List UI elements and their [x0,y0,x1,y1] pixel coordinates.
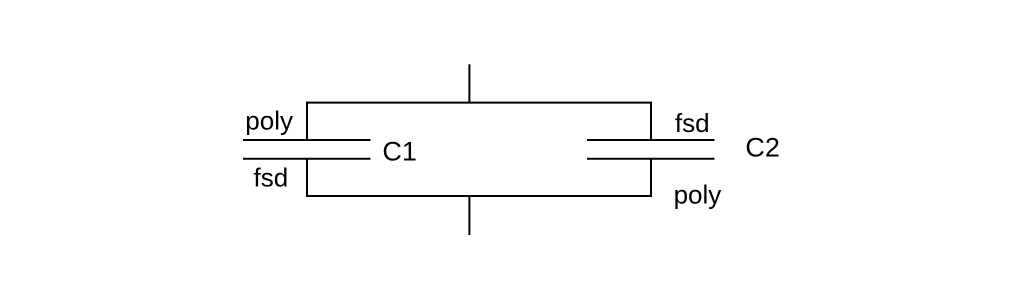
svg-text:C1: C1 [382,137,417,167]
wire: left edge upper segment [306,102,308,140]
wire: bottom lead stub [468,196,470,235]
capacitor C2 [587,140,715,159]
svg-text:fsd: fsd [675,108,710,138]
svg-text:poly: poly [674,180,722,210]
wire: right edge upper segment [650,102,652,140]
capacitor C1 [243,140,371,159]
wire: top lead stub [468,64,470,102]
wire: top edge of loop [306,102,652,104]
svg-text:fsd: fsd [254,162,289,192]
svg-text:poly: poly [245,106,293,136]
wire: bottom edge of loop [306,195,652,197]
wire: left edge lower segment [306,159,308,197]
svg-text:C2: C2 [745,133,780,163]
wire: right edge lower segment [650,159,652,197]
